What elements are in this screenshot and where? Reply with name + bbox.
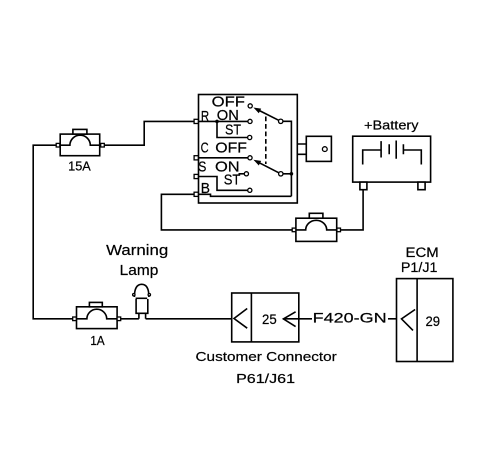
svg-text:ST: ST bbox=[225, 123, 241, 139]
svg-text:OFF: OFF bbox=[215, 140, 247, 156]
junction dot on right bus bbox=[290, 172, 294, 176]
wire C terminal to OFF contact (lower) bbox=[199, 157, 249, 159]
svg-text:29: 29 bbox=[426, 314, 441, 329]
svg-text:S: S bbox=[198, 159, 206, 175]
svg-text:P61/J61: P61/J61 bbox=[236, 371, 295, 386]
contact ST (top section) bbox=[248, 135, 252, 139]
connector chevron left bbox=[234, 309, 247, 329]
wire pivot 2 to right bus bbox=[283, 173, 291, 175]
wire F420-GN into ECM bbox=[388, 318, 402, 320]
switch arm 2 arrowhead bbox=[253, 160, 261, 166]
svg-text:ECM: ECM bbox=[406, 245, 439, 260]
wire arrow into connector pin 25 bbox=[283, 318, 312, 320]
fuse F3 left terminal bbox=[292, 228, 296, 232]
fuse F1 body 15A bbox=[60, 134, 99, 156]
wire B terminal to right bus (inside box) bbox=[199, 194, 292, 196]
contact ON stub (lower section) bbox=[239, 173, 245, 175]
switch terminal B bbox=[194, 192, 198, 196]
fuse F2 left terminal bbox=[73, 317, 77, 321]
fuse F1 right terminal bbox=[101, 143, 105, 147]
wire R terminal to ON contact bbox=[199, 120, 249, 122]
svg-text:Lamp: Lamp bbox=[120, 262, 159, 279]
battery left foot bbox=[360, 182, 367, 190]
wire fuse F2 to warning lamp bbox=[121, 318, 139, 320]
fuse F3 top tab bbox=[309, 213, 323, 218]
battery cell symbol bbox=[363, 141, 422, 165]
svg-text:F420-GN: F420-GN bbox=[313, 310, 387, 326]
battery box bbox=[353, 136, 431, 182]
warning lamp stem leads bbox=[139, 313, 146, 319]
fuse F3 body (battery fuse) bbox=[296, 218, 337, 241]
contact OFF (top) bbox=[248, 104, 252, 108]
switch arm 1 pivot bbox=[279, 119, 283, 123]
key symbol box bbox=[306, 136, 331, 161]
svg-text:R: R bbox=[201, 109, 209, 125]
svg-text:25: 25 bbox=[262, 312, 277, 327]
svg-text:C: C bbox=[201, 140, 209, 156]
switch arm 1 (upper) line bbox=[260, 111, 281, 122]
switch arm 2 pivot bbox=[279, 172, 283, 176]
svg-text:+Battery: +Battery bbox=[364, 117, 419, 132]
junction dot on R wire bbox=[215, 120, 219, 124]
fuse F3 element arc bbox=[296, 220, 337, 230]
contact lower (C row) bbox=[248, 156, 252, 160]
wire from fuse F1 right terminal to switch R terminal bbox=[104, 121, 198, 145]
svg-text:ST: ST bbox=[224, 172, 241, 188]
arrowhead at pin 25 bbox=[283, 312, 295, 327]
key symbol circle bbox=[322, 147, 327, 152]
ECM chevron pin 29 bbox=[402, 310, 416, 331]
switch terminal C bbox=[194, 156, 198, 160]
customer connector box bbox=[232, 293, 299, 342]
ECM box bbox=[397, 279, 453, 362]
switch arm 1 arrowhead bbox=[253, 108, 261, 114]
customer connector divider bbox=[250, 293, 252, 342]
fuse F2 top tab bbox=[89, 302, 102, 306]
switch terminal S bbox=[194, 174, 198, 178]
wire pivot 1 to right bus bbox=[283, 121, 292, 196]
key switch box bbox=[199, 95, 298, 204]
fuse F2 body 1A bbox=[77, 307, 118, 329]
switch arm 2 (lower) line bbox=[260, 163, 281, 174]
wire B terminal out to fuse F3 bbox=[161, 194, 295, 230]
svg-text:15A: 15A bbox=[68, 160, 91, 174]
key symbol connection lines bbox=[297, 144, 306, 154]
warning lamp bayonet pin left bbox=[133, 294, 135, 296]
fuse F3 right terminal bbox=[337, 228, 341, 232]
svg-text:P1/J1: P1/J1 bbox=[401, 260, 438, 275]
switch terminal R bbox=[194, 119, 198, 123]
battery right foot bbox=[418, 182, 425, 190]
warning lamp bayonet pin right bbox=[148, 294, 150, 296]
contact ST (lower section) bbox=[248, 188, 252, 192]
contact ON (lower section) bbox=[244, 172, 248, 176]
wire S terminal to ST contact (lower) bbox=[199, 177, 248, 191]
warning lamp bulb dome bbox=[134, 284, 149, 297]
fuse F2 element arc bbox=[77, 309, 118, 319]
svg-text:Warning: Warning bbox=[106, 242, 168, 259]
fuse F1 left terminal bbox=[56, 143, 60, 147]
fuse F1 element arc bbox=[60, 135, 99, 145]
svg-text:1A: 1A bbox=[90, 334, 105, 348]
fuse F2 right terminal bbox=[117, 317, 121, 321]
warning lamp base top line bbox=[136, 297, 148, 299]
wire warning lamp to customer connector bbox=[146, 318, 234, 320]
svg-text:Customer Connector: Customer Connector bbox=[196, 349, 338, 364]
fuse F1 top tab bbox=[73, 129, 87, 134]
warning lamp base body bbox=[136, 299, 148, 313]
ECM divider bbox=[416, 279, 418, 362]
contact ON (top section) bbox=[248, 119, 252, 123]
wire from fuse F1 left terminal down left side to fuse F2 bbox=[33, 145, 72, 319]
mechanical link dashed line bbox=[265, 117, 267, 165]
wire fuse F3 to battery bbox=[341, 190, 364, 230]
wire junction to ST contact bbox=[217, 121, 248, 137]
